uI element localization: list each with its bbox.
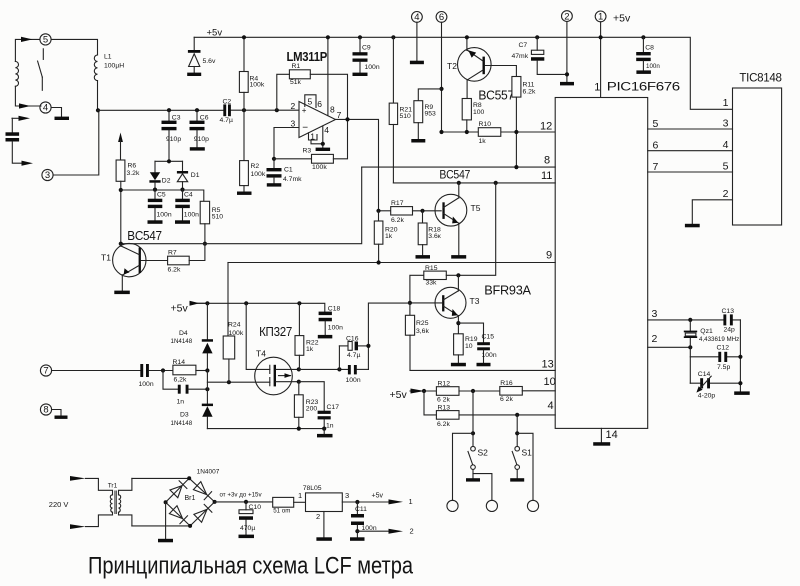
svg-text:5: 5 [723,161,729,173]
svg-text:12: 12 [540,121,552,133]
ground (PIC pin14) [593,442,610,446]
svg-text:BC557: BC557 [478,89,514,103]
svg-text:4-20p: 4-20p [698,393,716,400]
svg-text:R13: R13 [438,404,451,411]
wire op-amp pin 8 to +5v rail [327,37,329,115]
resistor R19 10 [454,334,478,363]
svg-text:10: 10 [544,376,556,388]
ground (C8) [636,70,651,74]
svg-text:3,6k: 3,6k [416,328,429,335]
svg-text:TIC8148: TIC8148 [739,73,781,85]
svg-text:51 om: 51 om [273,507,290,514]
svg-text:1: 1 [409,497,413,506]
wire pin12 line [442,131,556,133]
node junction R3 left [272,157,276,161]
capacitor C7 47mk [512,35,568,74]
wire ground stem clamp rail [323,429,325,434]
svg-text:5.6v: 5.6v [203,58,216,65]
wire pin13 line [410,369,555,371]
diode D1 [177,161,200,189]
connector jack C [527,500,538,511]
node junction R4 on rail [242,35,246,39]
svg-text:C6: C6 [200,114,209,121]
wire terminal1 to PIC pin1 [600,22,602,98]
node junction output/feedback [345,117,349,121]
resistor R13 6.2k [436,404,555,427]
resistor 51 om [273,497,306,514]
node terminal 1 [595,11,606,23]
svg-text:2: 2 [564,11,569,22]
capacitor 100n (parallel C16) [346,365,369,384]
capacitor C8 100n [636,35,660,70]
capacitor probe Cx (left edge) [6,116,34,166]
svg-text:3: 3 [345,491,349,500]
svg-text:C12: C12 [717,345,730,352]
svg-text:2: 2 [652,333,658,345]
op-amp pin 1 strap box and pin 4 [309,125,330,148]
node junction R13 feed [422,389,426,393]
svg-text:T1: T1 [101,253,111,263]
switch (between 5 and 4) [38,49,44,91]
connector jack A [447,500,458,511]
node junction C3 bottom [167,159,171,163]
resistor R14 6,2k [173,359,208,384]
svg-text:3: 3 [45,170,50,181]
node junction T2 emitter on rail [465,35,469,39]
svg-text:4: 4 [43,103,48,114]
svg-text:13: 13 [542,359,554,371]
capacitor C14 4-20p trimmer [690,371,740,400]
wire R1 right to output node [310,74,347,119]
node junction jackA tap [471,431,475,435]
svg-text:BC547: BC547 [439,170,470,182]
resistor R22 1k [295,303,319,369]
power gnd output arrow 2 [357,526,413,535]
resistor R11 6.2k [512,77,536,168]
node junction T1 collector [119,242,123,246]
svg-text:470µ: 470µ [240,525,255,532]
capacitor C16 4.7u [299,336,369,372]
svg-text:1: 1 [298,491,302,500]
node junction T4 gate2 riser [244,301,248,305]
resistor R25 3,6k [405,303,429,371]
node junction C11 bottom [355,529,359,533]
svg-text:100k: 100k [229,330,244,337]
svg-text:Принципиальная схема LCF метра: Принципиальная схема LCF метра [88,553,413,580]
wire gate input line [207,381,269,383]
resistor R17 6.2k [379,200,442,224]
wire bridge minus to ground [165,502,167,539]
wire secondary to bridge [132,478,190,526]
node junction C14 right [738,381,742,385]
wire terminal5 left lead with arrow [15,37,40,62]
capacitor 1n (parallel R14) [163,371,207,406]
node junction S1 riser [515,413,519,417]
svg-text:1n: 1n [326,422,334,429]
node junction R14/D4 [205,368,209,372]
wire T1 collector node to pin8 riser [121,167,362,244]
resistor R8 100 [462,99,484,133]
svg-text:C14: C14 [698,371,711,378]
svg-text:100k: 100k [250,82,265,89]
node terminal 4 (left) [40,102,51,114]
svg-text:R12: R12 [438,380,451,387]
svg-text:910p: 910p [166,136,181,143]
svg-text:3.2k: 3.2k [127,170,140,177]
resistor R12 6.2k [436,380,499,403]
inductor L1 100uH [94,54,124,111]
capacitor C12 7.5p [690,345,740,371]
svg-text:R14: R14 [173,359,186,366]
svg-text:C7: C7 [519,42,528,49]
svg-text:S2: S2 [478,447,489,457]
transistor Q T1 BC547 [101,243,146,290]
node junction R1 feedback [275,108,279,112]
svg-text:4.7µ: 4.7µ [347,352,360,359]
ground (C18) [318,335,333,339]
svg-text:R19: R19 [465,336,478,343]
ground (C5) [148,220,163,224]
ground (op-amp pin 1/4) [316,148,331,151]
resistor R23 200 [294,382,318,429]
svg-text:C10: C10 [249,504,262,511]
svg-text:+5v: +5v [390,389,408,401]
regulator 78L05 [298,485,349,537]
svg-text:3: 3 [723,118,729,130]
crystal Qz1 4,433619 MHz [684,320,739,383]
svg-text:R1: R1 [292,63,301,70]
capacitor C5 100n [148,190,172,221]
svg-text:200: 200 [306,406,318,413]
svg-text:7: 7 [43,366,48,377]
svg-text:L1: L1 [104,54,112,61]
capacitor C4 100n [175,190,199,221]
svg-text:8: 8 [544,155,550,167]
svg-text:R24: R24 [228,322,241,329]
wire jack A to S2 top [453,433,474,500]
node junction R5/R7/collector [203,242,207,246]
node junction op output / R17 / R20 [376,209,380,213]
pin labels PIC left side [540,121,556,413]
svg-text:4.7mk: 4.7mk [283,176,302,183]
resistor R21 510 [389,35,412,183]
svg-text:100n: 100n [365,64,380,71]
capacitor C3 910p [162,110,182,161]
svg-text:R15: R15 [425,265,438,272]
transformer Tr1 [86,478,132,526]
svg-text:2: 2 [316,512,320,521]
svg-text:8: 8 [330,104,335,114]
svg-text:220 V: 220 V [49,500,69,509]
wire terminal6 down to R10 line [441,22,443,132]
svg-text:Qz1: Qz1 [700,328,713,335]
capacitor C1 4.7mk [267,167,303,184]
ground (R18) [416,255,431,259]
svg-text:C8: C8 [645,45,654,52]
wire PIC6-TIC4 [648,150,733,152]
svg-text:от +3v до +15v: от +3v до +15v [220,491,263,498]
capacitor C17 1n [299,382,339,430]
transistor Q T5 BC547 [435,183,481,255]
node junction terminal1 on rail [599,35,603,39]
svg-text:1k: 1k [306,346,314,353]
svg-text:3.6к: 3.6к [428,233,440,240]
svg-text:R3: R3 [303,148,312,155]
svg-text:C11: C11 [355,506,367,513]
rectifier bridge Br1 1N4007 [164,468,220,528]
node junction R23 bottom [297,427,301,431]
svg-text:1: 1 [594,82,600,94]
svg-text:T5: T5 [471,203,481,213]
svg-text:100n: 100n [139,381,154,388]
power +5v label (middle) with arrow [171,301,208,315]
svg-text:C17: C17 [327,404,340,411]
node junction 1n branch [161,368,165,372]
svg-text:R6: R6 [128,163,137,170]
svg-text:R16: R16 [500,380,513,387]
svg-text:6: 6 [653,140,659,152]
svg-text:BC547: BC547 [127,229,162,243]
svg-text:D4: D4 [179,330,188,337]
svg-text:4: 4 [324,125,329,135]
svg-text:6.2k: 6.2k [437,421,450,428]
svg-text:100n: 100n [346,377,361,384]
ground (TIC pin2) [685,224,700,228]
ground (terminal 4) [55,117,70,120]
svg-text:100k: 100k [251,171,266,178]
transistor Q T4 KP327 [246,303,299,395]
node junction terminal6 riser on pin12 line [439,130,443,134]
op-amp pin 5/6 strap box [305,95,323,109]
wire R1 left to pin2 node [277,74,290,110]
svg-text:D1: D1 [191,172,200,179]
svg-text:+5v: +5v [207,28,223,39]
resistor R16 6 2k [500,380,555,403]
switch S2 [468,391,488,478]
svg-text:4.7µ: 4.7µ [220,117,233,124]
node terminal 8 [40,404,51,416]
svg-text:+: + [302,106,307,115]
svg-text:100n: 100n [184,211,199,218]
svg-text:9: 9 [546,250,552,262]
node junction C7/terminal2 [565,72,569,76]
svg-text:2: 2 [410,526,414,535]
resistor R10 1k [478,121,501,145]
svg-text:D3: D3 [180,411,189,418]
svg-text:6.2k: 6.2k [391,217,404,224]
wire clamp top line (C3 to D1/D2 anodes) [155,160,183,162]
connector jack B [486,500,497,511]
ground (C15) [477,363,491,367]
ground (C4) [175,220,190,224]
resistor R18 3.6k [418,211,441,255]
resistor R20 1k [374,211,397,263]
wire main oscillator line [98,109,299,111]
node junction R24 bottom on gate line [227,380,231,384]
node junction jackC tap [515,431,519,435]
svg-text:1k: 1k [385,233,393,240]
svg-text:100n: 100n [328,324,343,331]
ground (clamp rail) [317,434,333,438]
wire pin8 line [362,166,556,168]
wire coil to terminal 4 with arrow [15,86,41,108]
node junction C16 right [366,344,370,348]
node junction C12 right [738,355,742,359]
ground (C11) [350,537,365,541]
svg-text:−: − [302,122,308,133]
op-amp input pin labels and +- [291,101,342,133]
svg-text:4,433619 MHz: 4,433619 MHz [699,336,739,343]
zener diode 5.6v [188,37,216,72]
ground (S2) [466,478,480,481]
node junction pin8 riser on rail [326,35,330,39]
svg-text:1N4148: 1N4148 [171,420,193,427]
node junction T3 collector riser on pin11 [494,181,498,185]
transistor Q T2 BC557 [447,37,516,98]
wire terminal2 to ground [566,22,568,82]
svg-text:C9: C9 [362,45,371,52]
node junction R12/R16/S2 [471,389,475,393]
ground (C1) [267,183,282,186]
wire PIC pin 14 to ground [601,428,617,442]
svg-text:8: 8 [43,405,48,416]
node terminal 2 [562,11,573,23]
wire +5v rail top [194,37,732,109]
capacitor C13 24p [722,308,736,334]
svg-text:10: 10 [465,343,473,350]
wire PIC5-TIC3 [648,128,733,130]
node junction T3 collector on R15 wire [456,273,460,277]
svg-text:4: 4 [414,12,419,23]
ground (R19) [451,363,466,367]
IC U2 PIC16F676 box [555,80,680,429]
ground (terminal 4 top) [410,61,424,64]
node junction D4 top [205,301,209,305]
wire PIC pin2 to crystal [648,346,691,348]
svg-text:1N4148: 1N4148 [171,338,193,345]
svg-text:7.5p: 7.5p [717,364,730,371]
capacitor 100n (input, terminal 7) [52,364,173,388]
svg-text:7: 7 [337,110,342,120]
switch S1 [512,415,532,478]
svg-text:C18: C18 [328,305,341,312]
ground (T5 emitter) [451,255,466,259]
svg-text:C13: C13 [722,308,735,315]
wire PIC7-TIC5 [648,171,733,173]
svg-text:7: 7 [653,161,659,173]
transistor Q T3 BFR93A [410,275,480,334]
node junction R8 bottom [465,130,469,134]
svg-text:T3: T3 [470,296,480,306]
wire crystal right rail [739,320,741,392]
ground (C9) [353,73,368,76]
svg-text:1k: 1k [479,138,487,145]
resistor R1 51k [289,63,310,86]
wire bridge plus output [215,501,273,503]
wire op-amp output to R17 node [336,119,379,210]
node junction T4 drain / R22 [297,367,301,371]
svg-text:D2: D2 [162,177,171,184]
capacitor C10 470u [239,500,261,535]
node junction R4/R2 [242,108,246,112]
capacitor C11 100n [351,502,377,537]
wire clamp bias line (R6 to R5) [121,190,204,201]
svg-text:6 2k: 6 2k [437,397,450,404]
wire clamp bottom rail [207,428,324,430]
resistor R2 100k [240,110,266,191]
node junction L1/term3/main line [96,108,100,112]
pin labels TIC left side [723,97,729,200]
svg-text:100n: 100n [646,63,660,70]
wire PIC pin3 to crystal [648,319,741,321]
diode D4 1N4148 [171,303,214,370]
node junction C6 [195,108,199,112]
ground (S1) [510,478,524,481]
node terminal 4 (top) [412,12,423,24]
wire pin11 line [393,182,555,184]
node terminal 3 [42,169,53,181]
svg-text:T4: T4 [256,349,266,359]
svg-text:2: 2 [291,101,296,111]
pin labels PIC right side [652,118,659,345]
svg-text:100k: 100k [312,164,327,171]
svg-text:C15: C15 [482,333,495,340]
wire S2 bottom to jack B [473,474,492,501]
svg-text:5: 5 [43,35,48,46]
diode D2 [149,161,170,189]
node terminal 5 [40,34,51,46]
svg-text:5: 5 [653,118,659,130]
svg-text:Tr1: Tr1 [108,483,118,490]
ground (C6) [190,147,205,150]
diode D3 1N4148 [171,371,214,429]
svg-text:T2: T2 [447,61,457,71]
resistor R5 510 [200,201,223,243]
power +5v output arrow 1 [372,493,413,506]
svg-text:2: 2 [723,188,729,200]
svg-text:4: 4 [548,400,554,412]
ground (terminal 2) [560,82,574,86]
ground (T1 emitter) [114,291,130,295]
svg-text:Br1: Br1 [185,495,196,502]
svg-text:6: 6 [439,12,444,23]
node junction C17 bottom [322,427,326,431]
resistor R24 100k [223,322,244,383]
capacitor C2 4.7u (series) [220,99,233,124]
svg-text:+5v: +5v [171,303,189,315]
svg-text:51k: 51k [290,79,302,86]
svg-text:1N4007: 1N4007 [197,468,220,475]
node junction crystal bottom [688,345,692,349]
node junction base T3 / R25 / C16 line [408,301,412,305]
node junction C3 [167,108,171,112]
resistor R7 6.2k [141,244,205,274]
svg-text:33k: 33k [426,279,438,286]
capacitor C15 100n [458,323,496,363]
svg-text:6: 6 [317,99,322,109]
svg-text:100µH: 100µH [104,63,124,70]
capacitor C9 100n [353,35,380,72]
node junction R22 top [297,301,301,305]
ground (crystal caps) [734,391,750,395]
wire C16 output to T3 base node [368,303,410,369]
svg-text:+5v: +5v [613,13,631,25]
wire terminal8 to ground [52,410,61,416]
svg-text:+5v: +5v [372,493,384,500]
svg-text:КП327: КП327 [259,324,292,339]
node terminal 6 [436,12,447,24]
svg-text:953: 953 [425,111,437,118]
